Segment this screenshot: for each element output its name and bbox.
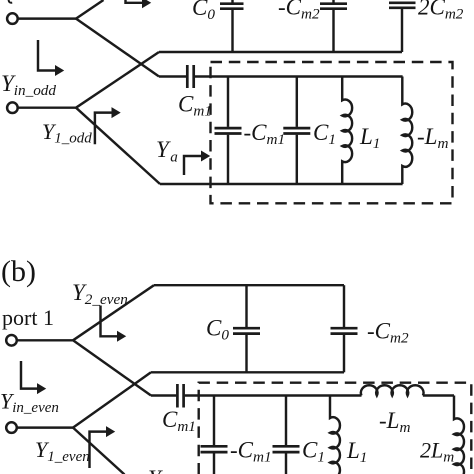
svg-text:2Lm: 2Lm [420,438,454,466]
arrow Y_in_odd [38,40,56,71]
wire diagonal down (cropped at bottom) [73,428,125,474]
svg-text:Y2_even: Y2_even [72,280,128,308]
branch capacitor -C_m1 (a) [227,77,229,127]
port1 text fragment (cropped) [9,0,13,3]
svg-text:C0: C0 [192,0,215,23]
branch capacitor C_1 (a) [296,77,298,127]
loop top rail (b) [154,284,344,286]
wire diagonal up to upper rail (crossing) [76,52,159,108]
wire diagonal down to box bottom rail [76,108,160,184]
box bottom rail (a) [160,183,403,185]
wire diagonal up to cropped port2 rail [76,0,104,19]
port 1b circle [6,422,17,433]
svg-text:-Lm: -Lm [417,124,448,152]
wire diagonal up to loop bottom rail (crossing) [73,372,151,427]
svg-text:C1: C1 [313,120,336,148]
arrow Y_in_even [21,361,38,389]
svg-text:port 1: port 1 [2,305,54,330]
port 2a circle [7,13,18,24]
arrow Y_1_even [90,432,108,468]
wire port1a to split [18,106,76,108]
capacitor C_m1 (series, a) [186,65,189,88]
lower rail (b) left of C_m1 [151,394,176,396]
svg-text:C0: C0 [206,316,229,344]
inductor L_1 (b, cropped bottom) [330,396,340,474]
capacitor C_0 (b) [245,285,247,327]
svg-text:-Lm: -Lm [379,408,410,436]
loop bottom rail (b) [151,371,344,373]
wire port1b to split [17,426,73,428]
svg-text:C1: C1 [302,438,325,466]
svg-text:2Cm2: 2Cm2 [418,0,464,23]
capacitor -C_m2 (b) [343,285,345,327]
port 1a circle [7,102,18,113]
upper rail (a) [159,51,402,53]
svg-text:-Cm1: -Cm1 [230,438,272,466]
svg-text:L1: L1 [359,124,380,152]
wire diagonal split to lower rail [76,19,159,77]
capacitor C_0 (a, cropped top) [231,0,233,3]
svg-text:(b): (b) [1,255,36,288]
svg-text:Cm1: Cm1 [178,92,212,120]
svg-text:Ya: Ya [156,137,178,166]
capacitor 2C_m2 (a, cropped top) [389,1,416,4]
wire port2a to split [18,17,76,19]
capacitor C_m1 (series, b) [176,384,179,408]
svg-text:Cm1: Cm1 [162,407,196,435]
lower rail (a) left of C_m1 [159,75,186,77]
wire diagonal split down to lower rail [73,340,151,395]
arrow Y_2_even [101,306,119,337]
svg-text:Y1_odd: Y1_odd [42,119,92,147]
inductor -L_m (b, horizontal) [361,385,424,395]
dashed resonator box (a) [211,62,453,203]
lower rail (b) right of C_m1 [185,394,362,396]
svg-text:Yin_even: Yin_even [0,388,59,416]
port 2b circle [6,335,17,346]
lower rail (a) right of C_m1 [195,75,403,77]
wire diagonal split up to loop top rail [73,285,154,340]
inductor 2L_m (b, cropped bottom) [454,396,464,474]
branch capacitor C_1 (b, cropped bottom) [285,396,287,446]
svg-text:Yb: Yb [148,466,169,474]
dashed resonator box (b, cropped bottom) [199,383,472,474]
arrow Y_1_odd [95,113,113,145]
capacitor -C_m2 (a, cropped top) [332,0,334,3]
arrow Y_a [184,156,202,175]
svg-text:-Cm1: -Cm1 [244,120,286,148]
inductor L_1 (a) [342,77,352,185]
rail right of -L_m to corner [423,394,454,396]
svg-text:L1: L1 [346,438,367,466]
arrow Y_2_odd (cropped at top) [126,0,144,3]
svg-text:Y1_even: Y1_even [35,437,90,465]
svg-text:-Cm2: -Cm2 [367,319,409,347]
branch capacitor -C_m1 (b, cropped bottom) [213,396,215,446]
svg-text:-Cm2: -Cm2 [278,0,320,23]
svg-text:Yin_odd: Yin_odd [1,71,56,99]
wire port2b to split [17,339,73,341]
inductor -L_m (a) [402,77,412,185]
